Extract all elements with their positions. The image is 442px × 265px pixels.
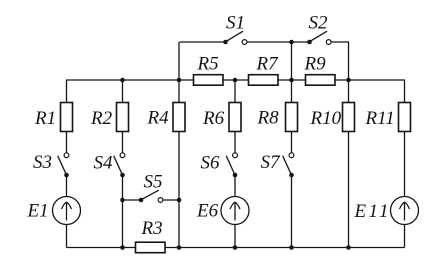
svg-text:S6: S6 [201,153,221,174]
svg-text:S2: S2 [309,13,329,34]
svg-text:R6: R6 [202,108,225,129]
svg-text:R5: R5 [197,54,219,75]
svg-text:R2: R2 [90,108,113,129]
svg-text:E11: E11 [354,201,389,222]
svg-text:R7: R7 [256,54,280,75]
svg-text:R11: R11 [365,108,395,129]
svg-text:S4: S4 [94,153,114,174]
svg-text:R9: R9 [304,54,327,75]
svg-text:E1: E1 [27,201,49,222]
svg-text:S7: S7 [261,152,282,173]
svg-text:R8: R8 [257,108,280,129]
svg-text:S1: S1 [226,13,245,34]
svg-text:R10: R10 [310,108,342,129]
svg-text:R3: R3 [141,218,163,239]
svg-text:S5: S5 [144,172,163,193]
svg-text:S3: S3 [33,152,52,173]
svg-text:R1: R1 [34,108,56,129]
svg-text:R4: R4 [147,108,170,129]
svg-text:E6: E6 [196,201,219,222]
